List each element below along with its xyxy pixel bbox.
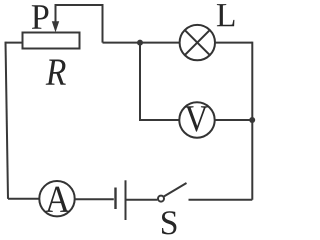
node junction top <box>137 40 143 46</box>
slider arrowhead P <box>52 21 59 32</box>
wire battery to switch <box>127 199 158 201</box>
wire stub left of resistor <box>6 42 23 44</box>
battery positive plate <box>125 180 127 220</box>
label R <box>46 60 66 85</box>
label L <box>217 4 235 26</box>
wire bottom left <box>8 198 40 200</box>
node junction right <box>249 117 255 123</box>
resistor R body <box>23 33 80 49</box>
ammeter A <box>39 181 74 216</box>
wire right vertical <box>251 42 253 200</box>
wire voltmeter branch down <box>140 43 180 120</box>
label A <box>45 187 70 212</box>
wire bus to lamp <box>103 42 180 44</box>
wire ammeter to battery <box>75 198 114 200</box>
wire switch to right <box>189 199 253 201</box>
label P <box>32 5 49 29</box>
lamp L <box>180 25 215 60</box>
battery negative plate <box>114 188 116 210</box>
label V <box>185 106 208 131</box>
voltmeter U <box>179 102 214 137</box>
label S <box>162 211 176 234</box>
wire left vertical <box>6 42 9 199</box>
switch S pivot <box>158 196 164 202</box>
wire top from slider up and right <box>56 5 103 43</box>
switch S lever <box>164 183 187 197</box>
wire voltmeter to right <box>215 119 253 121</box>
wire lamp to right <box>216 42 253 44</box>
